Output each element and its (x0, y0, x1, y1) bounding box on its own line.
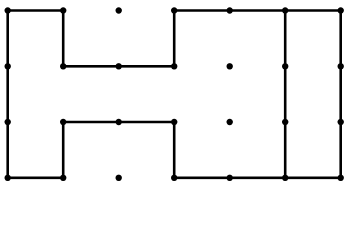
chord at column 5 (284, 11, 287, 178)
lattice dot (1,2) (60, 119, 66, 125)
lattice dot (4,2) (227, 119, 233, 125)
lattice dot (6,2) (338, 119, 344, 125)
lattice dot (4,3) (227, 175, 233, 181)
polygon outline (closed lattice polygon) (8, 11, 341, 178)
lattice dot (6,1) (338, 63, 344, 69)
lattice dot (0,3) (5, 175, 11, 181)
lattice dot (1,3) (60, 175, 66, 181)
lattice dot (0,1) (5, 63, 11, 69)
lattice dot (3,1) (171, 63, 177, 69)
lattice dot (3,0) (171, 7, 177, 13)
lattice dot (4,1) (227, 63, 233, 69)
lattice dot (6,0) (338, 7, 344, 13)
lattice dot (5,3) (282, 175, 288, 181)
lattice dot (5,2) (282, 119, 288, 125)
lattice dot (3,3) (171, 175, 177, 181)
lattice dot (1,1) (60, 63, 66, 69)
lattice dot (0,0) (5, 7, 11, 13)
lattice dot (5,0) (282, 7, 288, 13)
lattice dot (3,2) (171, 119, 177, 125)
lattice dot (1,0) (60, 7, 66, 13)
lattice dot (2,0) (116, 7, 122, 13)
lattice dot (0,2) (5, 119, 11, 125)
lattice dot (2,1) (116, 63, 122, 69)
lattice dot (2,3) (116, 175, 122, 181)
lattice dot (6,3) (338, 175, 344, 181)
lattice dot (4,0) (227, 7, 233, 13)
lattice dot (2,2) (116, 119, 122, 125)
lattice dot (5,1) (282, 63, 288, 69)
